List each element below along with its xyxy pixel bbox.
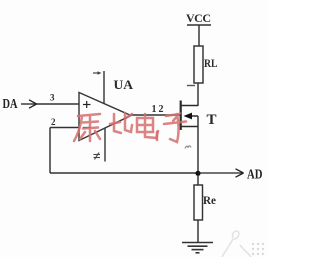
transistor T (NMOS) — [181, 101, 198, 131]
wire Re to ground — [197, 220, 199, 243]
watermark char bi — [110, 113, 132, 133]
watermark char kang — [74, 114, 100, 141]
DA arrow — [21, 100, 37, 108]
AD arrow — [198, 169, 244, 177]
svg-text:1: 1 — [152, 104, 157, 115]
wire feedback bottom horizontal — [50, 172, 198, 174]
svg-text:3: 3 — [50, 93, 55, 103]
wire transistor source down to node — [197, 116, 199, 173]
stray dash mark — [187, 85, 195, 87]
bottom power pin mark — [94, 153, 101, 160]
svg-text:DA: DA — [3, 97, 19, 112]
node junction dot — [195, 171, 200, 176]
svg-text:2: 2 — [51, 117, 56, 127]
op-amp minus sign — [83, 127, 91, 129]
svg-text:2: 2 — [159, 104, 164, 115]
svg-text:RL: RL — [204, 56, 218, 70]
wire op-amp output to gate — [131, 114, 181, 116]
watermark char zi — [157, 114, 186, 142]
op-amp bottom power pin — [104, 129, 106, 162]
pin mark near source — [185, 146, 191, 149]
transistor body arrow — [184, 113, 193, 120]
wire RL bottom to transistor drain — [197, 83, 199, 106]
power symbol VCC — [187, 25, 211, 46]
svg-text:T: T — [207, 112, 217, 128]
svg-text:UA: UA — [114, 77, 134, 92]
faint dot grid — [252, 243, 264, 255]
faint corner logo — [222, 231, 251, 257]
resistor RL — [194, 46, 203, 83]
ground — [182, 243, 213, 253]
svg-text:Re: Re — [203, 193, 217, 207]
wire pin 3 — [37, 103, 80, 105]
svg-text:VCC: VCC — [186, 11, 211, 25]
op-amp top power pin — [103, 71, 105, 104]
wire node to Re — [197, 176, 199, 185]
wire feedback left vertical — [49, 128, 51, 174]
op-amp UA — [79, 93, 131, 141]
op-amp plus sign — [83, 101, 91, 108]
wire pin 2 — [50, 127, 79, 129]
resistor Re — [194, 185, 203, 220]
top power pin mark — [93, 71, 102, 75]
watermark char dian — [137, 114, 157, 138]
svg-text:AD: AD — [247, 167, 263, 182]
